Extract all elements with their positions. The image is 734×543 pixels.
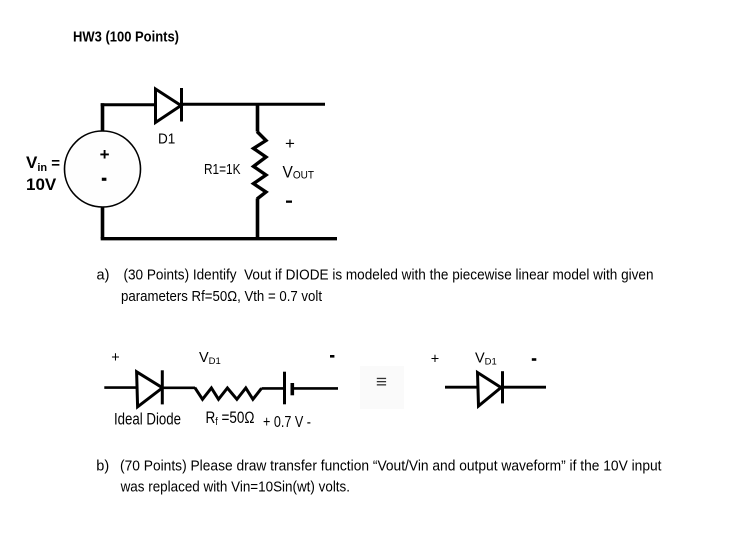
equivalence symbol bar 2 — [377, 381, 386, 382]
svg-text:VD1: VD1 — [475, 351, 497, 368]
wire diode to resistor — [163, 386, 196, 389]
ideal diode cathode bar — [161, 370, 164, 404]
svg-text:b): b) — [96, 459, 109, 475]
diode triangle (right model) — [478, 373, 502, 407]
equivalence gray box — [360, 366, 404, 409]
svg-text:(70 Points) Please draw transf: (70 Points) Please draw transfer functio… — [120, 459, 662, 475]
equivalence symbol bar 3 — [377, 384, 386, 385]
equivalence symbol bar 1 — [377, 378, 386, 379]
wire resistor to battery — [262, 387, 284, 390]
label Vout minus — [286, 201, 292, 203]
svg-text:Rf =50Ω: Rf =50Ω — [206, 409, 255, 428]
svg-text:R1=1K: R1=1K — [204, 161, 241, 178]
label minus (left model) — [330, 355, 334, 358]
svg-text:VOUT: VOUT — [283, 162, 315, 181]
wire top horizontal right segment — [182, 103, 326, 106]
battery long plate — [283, 372, 286, 405]
wire lead-in (left model) — [104, 386, 136, 389]
resistor R1 zigzag — [254, 132, 267, 200]
diode D1 triangle — [156, 89, 182, 123]
svg-text:parameters Rf=50Ω, Vth = 0.7 v: parameters Rf=50Ω, Vth = 0.7 volt — [121, 289, 322, 305]
svg-text:Vin =: Vin = — [26, 153, 60, 174]
ideal diode triangle — [137, 372, 163, 407]
svg-text:+: + — [285, 134, 295, 153]
battery short plate — [290, 383, 294, 395]
diode cathode bar (right model) — [501, 371, 504, 403]
wire resistor branch bottom stub — [256, 199, 260, 239]
svg-text:VD1: VD1 — [199, 350, 221, 367]
resistor Rf zigzag — [195, 388, 262, 400]
svg-text:Ideal Diode: Ideal Diode — [114, 411, 181, 429]
svg-text:+: + — [431, 352, 439, 368]
svg-text:was replaced with Vin=10Sin(wt: was replaced with Vin=10Sin(wt) volts. — [120, 480, 350, 496]
voltage source V1 circle — [65, 131, 141, 207]
svg-text:a): a) — [97, 268, 110, 284]
svg-text:+ 0.7 V -: + 0.7 V - — [263, 414, 311, 431]
wire source bottom stub — [101, 207, 105, 239]
wire battery out — [294, 387, 338, 390]
wire bottom horizontal — [101, 237, 337, 240]
svg-text:HW3 (100 Points): HW3 (100 Points) — [73, 29, 179, 46]
svg-text:D1: D1 — [158, 131, 175, 148]
diode D1 cathode bar — [180, 88, 183, 122]
wire top-left corner vertical — [101, 103, 105, 131]
wire out (right model) — [501, 386, 546, 389]
svg-text:+: + — [100, 145, 110, 164]
label minus (right model) — [532, 358, 537, 361]
wire lead-in (right model) — [445, 386, 478, 389]
wire top horizontal left segment — [101, 103, 155, 106]
wire resistor branch top stub — [256, 104, 260, 131]
svg-text:10V: 10V — [26, 175, 57, 194]
voltage source minus — [102, 178, 107, 181]
svg-text:(30 Points) Identify Vout if: (30 Points) Identify Vout if DIODE is mo… — [124, 268, 654, 284]
svg-text:+: + — [111, 350, 119, 366]
